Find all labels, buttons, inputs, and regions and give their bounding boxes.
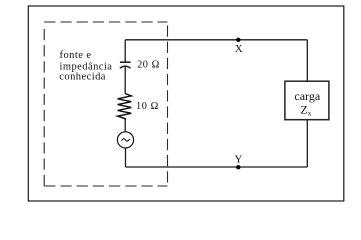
svg-text:Y: Y <box>235 154 243 166</box>
outer frame <box>28 6 344 201</box>
svg-text:conhecida: conhecida <box>59 71 106 82</box>
svg-text:10 Ω: 10 Ω <box>136 101 159 112</box>
dashed box: fonte e impedância conhecida <box>44 22 167 186</box>
wire: resistor to source <box>124 120 126 132</box>
load box: carga Zx <box>285 81 329 120</box>
node Y <box>236 165 240 169</box>
wire: vertical from top wire down to capacitor <box>124 40 126 62</box>
node X <box>236 38 240 42</box>
resistor R (10 Ω) <box>118 94 132 120</box>
wire: right vertical top (X side to load) <box>306 40 308 81</box>
wire: right vertical bottom (load to Y side) <box>306 120 308 167</box>
wire: source to bottom wire <box>125 148 127 167</box>
svg-text:fonte e: fonte e <box>60 50 92 61</box>
svg-text:carga: carga <box>294 89 320 103</box>
AC source V1 <box>117 132 133 148</box>
wire: top horizontal from source branch to load branch <box>125 39 307 41</box>
wire: bottom horizontal <box>126 166 308 168</box>
capacitor C (20 Ω) <box>120 62 131 68</box>
svg-text:20 Ω: 20 Ω <box>137 60 160 71</box>
svg-text:X: X <box>235 43 243 55</box>
wire: capacitor to resistor <box>124 66 126 93</box>
